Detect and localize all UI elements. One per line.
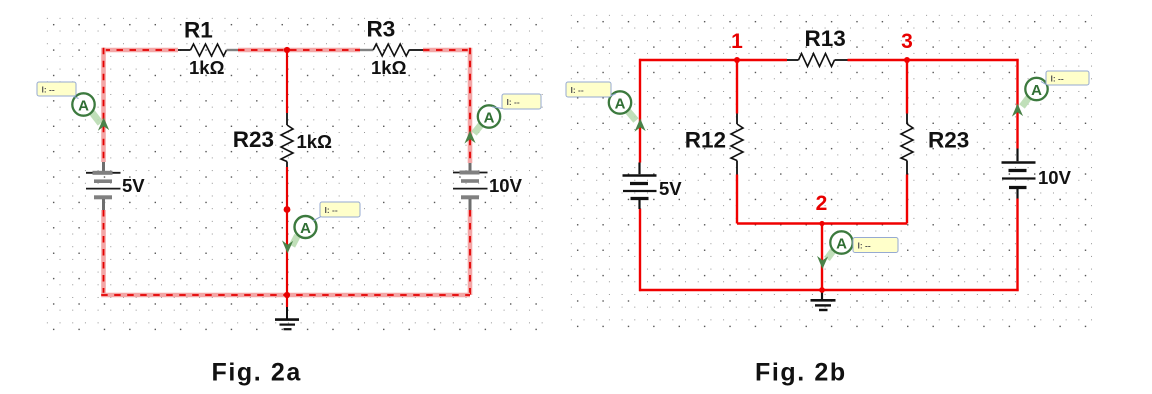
- svg-text:5V: 5V: [659, 178, 682, 199]
- node 2 dot: [819, 221, 824, 226]
- node 3 dot: [904, 57, 910, 63]
- ammeter probe right (fig 2b): [1012, 78, 1048, 117]
- probe label bottom (fig 2b): [853, 238, 898, 253]
- svg-text:Fig. 2a: Fig. 2a: [212, 359, 302, 387]
- wire right vertical lower: [468, 210, 473, 295]
- svg-text:5V: 5V: [122, 175, 145, 196]
- node 1 dot: [734, 57, 740, 63]
- resistor R3: [360, 44, 423, 56]
- svg-text:2: 2: [816, 192, 828, 215]
- dotted grid right schematic sheet: [565, 9, 1093, 331]
- svg-text:1kΩ: 1kΩ: [189, 57, 225, 78]
- resistor R12: [731, 114, 743, 175]
- dotted grid left schematic sheet: [41, 12, 549, 332]
- wire inner left vertical: [736, 60, 738, 224]
- svg-text:I: --: I: --: [571, 85, 584, 95]
- wire top right segment: [848, 59, 1019, 61]
- wire right vertical: [1016, 59, 1018, 291]
- probe label right (fig 2b): [1041, 71, 1089, 85]
- probe label left (fig 2b): [566, 82, 616, 97]
- svg-text:3: 3: [901, 30, 913, 53]
- ground (fig 2b): [811, 290, 836, 310]
- wire highlighted top-middle segment: [238, 48, 360, 53]
- junction node dot top middle: [284, 47, 290, 53]
- junction node dot mid wire: [284, 206, 291, 213]
- svg-text:A: A: [78, 98, 89, 115]
- resistor R13: [787, 54, 848, 67]
- svg-text:R3: R3: [367, 17, 396, 42]
- wire left vertical upper: [101, 48, 106, 162]
- probe label left: [37, 82, 79, 99]
- svg-text:R23: R23: [233, 127, 274, 152]
- resistor R1: [178, 44, 238, 56]
- wire bottom horizontal: [101, 293, 470, 298]
- probe label right: [492, 94, 541, 109]
- battery 10V (fig 2b): [1002, 149, 1036, 199]
- wire left vertical lower: [101, 210, 106, 295]
- svg-text:I: --: I: --: [858, 241, 871, 251]
- probe label middle: [313, 202, 360, 221]
- ground (fig 2a): [275, 307, 299, 329]
- svg-text:R23: R23: [928, 128, 969, 153]
- ammeter probe left (fig 2b): [609, 91, 646, 131]
- junction dot at ground (fig 2b): [819, 287, 825, 293]
- wire ground stub node 2: [821, 224, 823, 291]
- wire inner right vertical: [906, 60, 908, 224]
- ammeter probe left (A): [72, 93, 109, 130]
- wire middle vertical lower: [286, 167, 288, 295]
- battery V1 5V: [86, 162, 121, 210]
- ammeter probe middle (A): [282, 216, 317, 254]
- svg-text:R12: R12: [685, 128, 726, 153]
- svg-text:I: --: I: --: [507, 97, 520, 107]
- wire top left segment: [639, 59, 787, 61]
- svg-text:R13: R13: [805, 26, 846, 51]
- junction node dot bottom middle: [284, 292, 290, 298]
- svg-text:Fig. 2b: Fig. 2b: [755, 359, 847, 387]
- svg-text:A: A: [836, 236, 847, 253]
- svg-text:A: A: [615, 96, 626, 113]
- wire highlighted top-left segment: [104, 48, 179, 53]
- wire left vertical: [639, 59, 641, 291]
- svg-text:1: 1: [731, 30, 743, 53]
- svg-text:I: --: I: --: [1051, 74, 1064, 84]
- svg-text:R1: R1: [184, 18, 213, 43]
- svg-text:I: --: I: --: [325, 205, 338, 215]
- resistor R23 (fig 2b): [901, 114, 913, 175]
- wire ground stub: [286, 295, 288, 307]
- svg-text:1kΩ: 1kΩ: [371, 57, 407, 78]
- svg-text:10V: 10V: [1038, 167, 1072, 188]
- ammeter probe bottom (fig 2b): [817, 231, 853, 269]
- battery V2 10V: [453, 163, 488, 210]
- svg-text:A: A: [300, 220, 311, 237]
- wire middle vertical upper: [286, 50, 288, 113]
- ammeter probe right (A): [464, 105, 500, 143]
- wire right vertical upper: [468, 48, 473, 163]
- svg-text:1kΩ: 1kΩ: [297, 131, 333, 152]
- wire bottom horizontal: [639, 289, 1019, 291]
- wire highlighted top-right segment: [423, 48, 470, 53]
- svg-text:A: A: [484, 110, 495, 127]
- svg-text:I: --: I: --: [42, 85, 55, 95]
- svg-text:A: A: [1031, 82, 1042, 99]
- svg-text:10V: 10V: [489, 175, 523, 196]
- battery 5V (fig 2b): [623, 163, 657, 210]
- wire inner bottom horizontal: [737, 222, 907, 224]
- resistor R23 (vertical middle): [281, 113, 293, 167]
